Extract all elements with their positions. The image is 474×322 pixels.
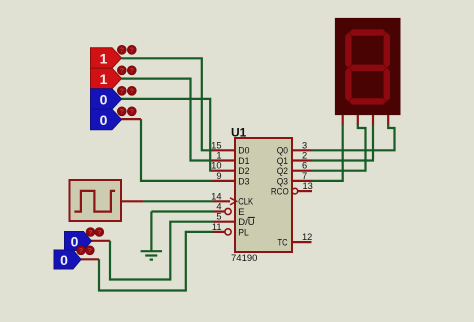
svg-text:?: ?: [130, 88, 134, 95]
svg-text:?: ?: [88, 248, 92, 255]
wire LS5 to U1 pin 5 (D/U): [90, 222, 213, 280]
U1 pin 7 Q3: [277, 171, 312, 187]
wire clock to U1 pin 14 (CLK): [121, 200, 213, 202]
7-segment display segment A (top): [349, 29, 386, 35]
svg-text:0: 0: [100, 92, 108, 108]
display pin 1: [342, 115, 344, 125]
svg-text:RCO: RCO: [271, 187, 289, 198]
svg-text:?: ?: [120, 47, 124, 54]
7-segment display segment D (bottom): [349, 98, 386, 104]
svg-text:?: ?: [130, 47, 134, 54]
7-segment display segment B (upper right): [384, 33, 390, 68]
wire U1 pin 2 (Q1) to display pin 3: [312, 124, 374, 161]
U1 pin 13 RCO (active low bubble): [271, 181, 313, 197]
svg-text:5: 5: [216, 212, 221, 222]
svg-text:?: ?: [120, 109, 124, 116]
7-segment display body: [335, 18, 401, 115]
logic state LS2 value 1: [91, 66, 137, 89]
svg-text:15: 15: [211, 140, 221, 150]
wire ground to U1 pin 4 (E): [151, 210, 213, 212]
IC U1 74190 body: [231, 126, 292, 264]
7-segment display segment F (upper left): [345, 33, 351, 68]
svg-text:2: 2: [302, 151, 307, 161]
U1 pin 15 D0: [211, 140, 249, 156]
svg-text:TC: TC: [278, 238, 288, 249]
logic state LS6 value 0: [54, 246, 94, 269]
U1 pin 9 D3: [212, 171, 250, 187]
wire LS6 to U1 pin 11 (PL): [80, 232, 213, 291]
logic state LS3 value 0: [91, 86, 137, 109]
svg-text:0: 0: [71, 234, 79, 250]
svg-text:10: 10: [211, 161, 221, 171]
wire LS3 to U1 pin 10 (D2): [122, 99, 213, 171]
wire LS2 to U1 pin 1 (D1): [122, 79, 213, 161]
svg-text:6: 6: [302, 161, 307, 171]
svg-text:12: 12: [302, 232, 312, 242]
svg-text:14: 14: [211, 191, 221, 201]
svg-text:?: ?: [79, 248, 83, 255]
U1 pin 2 Q1: [277, 151, 312, 167]
svg-text:U1: U1: [231, 126, 247, 140]
svg-text:0: 0: [60, 252, 68, 268]
svg-text:?: ?: [130, 68, 134, 75]
svg-text:?: ?: [120, 88, 124, 95]
U1 pin 3 Q0: [277, 140, 312, 156]
display pin 2: [357, 115, 359, 125]
display pin 3: [372, 115, 374, 125]
svg-text:3: 3: [302, 140, 307, 150]
U1 pin 12 TC: [278, 232, 313, 248]
ground: [141, 212, 162, 260]
svg-text:74190: 74190: [231, 253, 257, 264]
svg-text:D3: D3: [238, 176, 249, 187]
svg-text:9: 9: [216, 171, 221, 181]
wire U1 pin 6 (Q2) to display pin 2: [312, 124, 366, 171]
svg-text:4: 4: [216, 202, 221, 212]
U1 pin 6 Q2: [277, 161, 312, 177]
U1 pin 4 E (active low bubble): [213, 202, 245, 218]
clock generator: [70, 180, 122, 221]
svg-text:?: ?: [130, 109, 134, 116]
wire LS1 to U1 pin 15 (D0): [122, 58, 213, 150]
U1 pin 11 PL (active low bubble): [212, 222, 249, 238]
7-segment display segment C (lower right): [384, 68, 390, 102]
7-segment display segment E (lower left): [345, 68, 351, 102]
svg-text:1: 1: [100, 51, 108, 67]
svg-text:?: ?: [88, 229, 92, 236]
wire LS4 to U1 pin 9 (D3): [122, 119, 213, 181]
svg-text:PL: PL: [238, 227, 249, 238]
svg-text:1: 1: [100, 71, 108, 87]
logic state LS1 value 1: [91, 45, 137, 68]
logic state LS5 value 0: [65, 228, 104, 251]
U1 pin 14 CLK: [211, 191, 253, 207]
svg-text:11: 11: [212, 222, 222, 232]
U1 pin 10 D2: [211, 161, 249, 177]
7-segment display segment G (middle): [349, 65, 386, 71]
svg-text:13: 13: [303, 181, 313, 191]
logic state LS4 value 0: [91, 107, 137, 130]
display pin 4: [387, 115, 389, 125]
svg-text:7: 7: [302, 171, 307, 181]
U1 pin 1 D1: [212, 151, 250, 167]
wire U1 pin 7 (Q3) to display pin 1: [312, 124, 343, 181]
U1 pin 5 D/U: [213, 212, 255, 228]
svg-text:?: ?: [97, 229, 101, 236]
svg-text:0: 0: [100, 112, 108, 128]
svg-text:?: ?: [120, 68, 124, 75]
wire U1 pin 3 (Q0) to display pin 4: [312, 124, 395, 150]
svg-text:1: 1: [216, 151, 221, 161]
